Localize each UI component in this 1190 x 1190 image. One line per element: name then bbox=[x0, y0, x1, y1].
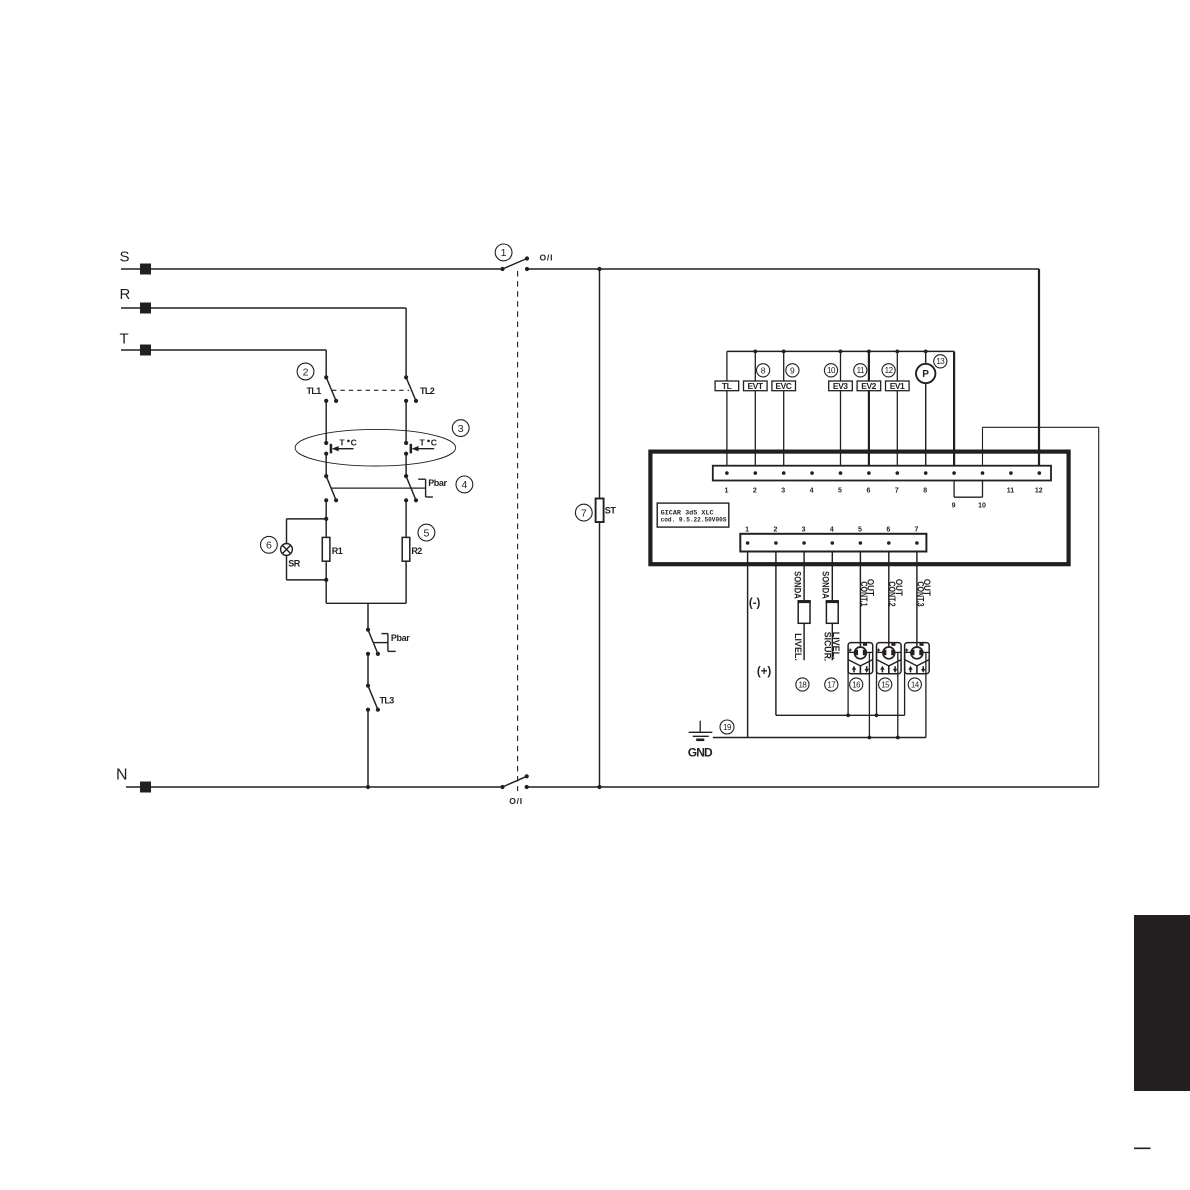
svg-text:LIVEL.: LIVEL. bbox=[793, 633, 804, 661]
circled 19 bbox=[720, 720, 734, 734]
circled 18 bbox=[796, 678, 809, 691]
ground symbol bbox=[689, 721, 713, 740]
svg-text:EVT: EVT bbox=[747, 381, 763, 391]
resistor R1 bbox=[322, 537, 330, 561]
svg-text:6: 6 bbox=[866, 488, 870, 495]
svg-text:3: 3 bbox=[458, 423, 464, 435]
svg-text:1: 1 bbox=[745, 526, 749, 533]
switch TL3 bbox=[366, 684, 380, 712]
probe LIVEL bbox=[798, 601, 811, 623]
wire Pbar left down bbox=[325, 500, 327, 537]
svg-text:4: 4 bbox=[461, 479, 467, 491]
main switch O/I top bbox=[500, 256, 529, 271]
node bus junction EV2 bbox=[867, 350, 871, 354]
wire terminal 1 to ground line bbox=[747, 552, 749, 738]
circled 11 bbox=[854, 364, 867, 377]
wire terminal 4 to probe bbox=[831, 552, 833, 601]
svg-text:5: 5 bbox=[423, 527, 429, 539]
terminal numbers lower strip bbox=[745, 526, 918, 533]
load label box EV2 bbox=[857, 381, 881, 391]
wire relay 16 right leg bbox=[868, 652, 870, 737]
svg-text:12: 12 bbox=[885, 366, 894, 375]
lamp SR bbox=[281, 544, 293, 556]
terminal square N bbox=[140, 782, 151, 793]
circled 12 bbox=[882, 364, 895, 377]
wire ground line bbox=[713, 737, 926, 739]
wire join to Pbar lower bbox=[367, 603, 369, 629]
node ground line relay 16 bbox=[868, 736, 872, 740]
node plus line relay 15 bbox=[875, 713, 879, 717]
svg-text:4: 4 bbox=[830, 526, 834, 533]
node bus junction EV3 bbox=[839, 350, 843, 354]
svg-text:3: 3 bbox=[781, 488, 785, 495]
bracket Pbar upper bbox=[418, 479, 433, 497]
svg-text:9: 9 bbox=[952, 503, 956, 510]
node bus junction EV1 bbox=[895, 350, 899, 354]
svg-text:8: 8 bbox=[923, 488, 927, 495]
wire bus to EV3 box bbox=[840, 351, 842, 381]
outer loop wire from terminal 10 bbox=[983, 427, 1099, 787]
svg-text:R1: R1 bbox=[332, 546, 343, 556]
svg-text:SONDA: SONDA bbox=[820, 571, 831, 599]
wire EVT to terminal bbox=[754, 391, 756, 466]
circled 14 bbox=[908, 678, 921, 691]
wire EV2 to terminal bbox=[868, 391, 870, 466]
node junction lamp branch bottom bbox=[324, 578, 328, 582]
circled 3 bbox=[452, 420, 469, 437]
svg-text:C: C bbox=[431, 438, 437, 448]
svg-text:10: 10 bbox=[827, 366, 836, 375]
svg-text:TL2: TL2 bbox=[420, 386, 435, 396]
circled 6 bbox=[261, 536, 278, 553]
wire TL1 to thermal contact bbox=[325, 401, 327, 443]
link line Pbar poles bbox=[331, 487, 425, 489]
svg-text:TL3: TL3 bbox=[380, 695, 395, 705]
wire terminal to relay 14 bbox=[916, 552, 918, 647]
switch Pbar right pole bbox=[404, 474, 418, 502]
terminal dots lower strip bbox=[746, 541, 919, 545]
wire TL3 to N bbox=[367, 710, 369, 787]
terminal square T bbox=[140, 345, 151, 356]
wire terminal to relay 15 bbox=[888, 552, 890, 647]
svg-text:R: R bbox=[120, 286, 131, 303]
node junction ST branch top bbox=[597, 267, 601, 271]
svg-text:8: 8 bbox=[761, 365, 766, 375]
svg-text:cod. 9.5.22.50V00S: cod. 9.5.22.50V00S bbox=[661, 516, 727, 523]
pump relay CONT.2 bbox=[877, 643, 902, 674]
svg-text:SICUR.: SICUR. bbox=[822, 632, 833, 662]
svg-text:7: 7 bbox=[581, 507, 587, 519]
node bus junction EVT bbox=[753, 350, 757, 354]
page marker black block bbox=[1134, 915, 1190, 1091]
wire bus to EV2 box bbox=[868, 351, 870, 381]
wire EVC to terminal bbox=[783, 391, 785, 466]
node ground line relay 15 bbox=[896, 736, 900, 740]
svg-text:EVC: EVC bbox=[775, 381, 791, 391]
wire P to terminal 8 bbox=[925, 383, 927, 466]
switch Pbar left pole bbox=[324, 474, 338, 502]
wire EV3 to terminal bbox=[840, 391, 842, 466]
svg-text:2: 2 bbox=[753, 488, 757, 495]
ellipse thermal group bbox=[295, 429, 456, 466]
svg-text:CONT.1: CONT.1 bbox=[859, 581, 870, 606]
svg-text:14: 14 bbox=[911, 680, 920, 689]
svg-text:3: 3 bbox=[802, 526, 806, 533]
circled 8 bbox=[757, 364, 770, 377]
terminal strip upper bbox=[713, 466, 1051, 481]
svg-text:P: P bbox=[922, 369, 929, 380]
load label box EVT bbox=[744, 381, 768, 391]
circled 15 bbox=[879, 678, 892, 691]
svg-text:6: 6 bbox=[886, 526, 890, 533]
wire S phase bbox=[121, 268, 503, 270]
svg-text:7: 7 bbox=[895, 488, 899, 495]
svg-text:CONT.3: CONT.3 bbox=[915, 581, 926, 606]
svg-text:11: 11 bbox=[1007, 488, 1015, 495]
wire T phase bbox=[121, 349, 326, 351]
svg-text:CONT.2: CONT.2 bbox=[887, 581, 898, 606]
svg-text:16: 16 bbox=[852, 680, 861, 689]
svg-text:ST: ST bbox=[605, 505, 617, 515]
wire probe LIVEL tail bbox=[803, 623, 805, 660]
svg-text:EV2: EV2 bbox=[861, 381, 876, 391]
svg-text:Pbar: Pbar bbox=[428, 478, 447, 488]
wire relay 15 right leg bbox=[897, 652, 899, 737]
node junction ST branch bottom bbox=[597, 785, 601, 789]
svg-text:5: 5 bbox=[838, 488, 842, 495]
node junction TL3 on N bbox=[366, 785, 370, 789]
svg-text:EV3: EV3 bbox=[833, 381, 848, 391]
wire bus to EVC box bbox=[783, 351, 785, 381]
load label box EV1 bbox=[886, 381, 910, 391]
bracket Pbar lower bbox=[373, 634, 396, 652]
wire bus to terminal 9 bbox=[953, 351, 955, 465]
svg-text:SONDA: SONDA bbox=[793, 571, 804, 599]
svg-text:1: 1 bbox=[724, 488, 728, 495]
wire resistor join bbox=[326, 602, 406, 604]
wire bus to EV1 box bbox=[896, 351, 898, 381]
wire bus to TL box bbox=[726, 351, 728, 381]
terminal numbers upper strip bbox=[724, 488, 1042, 510]
wire R1 bottom bbox=[325, 561, 327, 603]
svg-text:Pbar: Pbar bbox=[391, 633, 410, 643]
wire Pbar lower to TL3 bbox=[367, 654, 369, 686]
wire EV1 to terminal bbox=[896, 391, 898, 466]
terminal strip lower bbox=[740, 534, 926, 552]
circled 5 bbox=[418, 524, 435, 541]
wire relay 14 right leg bbox=[925, 652, 927, 737]
load label box TL bbox=[715, 381, 739, 391]
svg-text:9: 9 bbox=[790, 365, 795, 375]
wire thermal to Pbar left bbox=[325, 454, 327, 476]
switch TL2 bbox=[404, 375, 418, 403]
nameplate box bbox=[657, 503, 729, 527]
svg-text:T: T bbox=[420, 438, 426, 448]
circled 13 bbox=[934, 355, 947, 368]
wire plus line bbox=[776, 714, 905, 716]
wire relay 16 left leg bbox=[847, 652, 849, 715]
wire TL to terminal bbox=[726, 391, 728, 466]
dashed switch coupling line bbox=[517, 271, 519, 791]
svg-text:7: 7 bbox=[914, 526, 918, 533]
terminal square S bbox=[140, 264, 151, 275]
wire bus to P bbox=[925, 351, 927, 363]
svg-text:T: T bbox=[120, 331, 129, 348]
wire R phase bbox=[121, 307, 406, 309]
wire ST bottom bbox=[599, 522, 601, 787]
svg-text:S: S bbox=[120, 249, 130, 266]
circled 2 bbox=[297, 363, 314, 380]
svg-text:12: 12 bbox=[1035, 488, 1043, 495]
svg-text:R2: R2 bbox=[411, 546, 422, 556]
svg-text:6: 6 bbox=[266, 540, 272, 552]
svg-text:C: C bbox=[351, 438, 357, 448]
wire Pbar right down bbox=[405, 500, 407, 537]
pump relay CONT.3 bbox=[905, 643, 930, 674]
svg-text:11: 11 bbox=[857, 366, 865, 375]
circled 16 bbox=[850, 678, 863, 691]
circled 4 bbox=[456, 476, 473, 493]
main switch O/I bottom bbox=[500, 774, 528, 789]
svg-text:TL: TL bbox=[722, 381, 732, 391]
wire terminal 2 to plus line bbox=[775, 552, 777, 716]
svg-text:O/I: O/I bbox=[540, 253, 554, 263]
probe LIVEL SICUR bbox=[826, 601, 839, 623]
wire lamp branch top bbox=[287, 518, 327, 520]
svg-text:13: 13 bbox=[936, 357, 945, 366]
circled 10 bbox=[824, 364, 837, 377]
svg-text:N: N bbox=[116, 767, 128, 784]
svg-text:15: 15 bbox=[881, 680, 890, 689]
wire relay 14 left leg bbox=[904, 652, 906, 715]
load label box EV3 bbox=[829, 381, 853, 391]
circled 1 bbox=[495, 244, 512, 261]
pump relay CONT.1 bbox=[848, 643, 873, 674]
svg-text:1: 1 bbox=[501, 247, 507, 259]
wire lamp branch bottom bbox=[286, 555, 288, 580]
switch TL1 bbox=[324, 375, 338, 403]
svg-text:4: 4 bbox=[810, 488, 814, 495]
controller box GICAR bbox=[650, 452, 1068, 565]
wire N neutral bbox=[126, 786, 503, 788]
svg-text:O/I: O/I bbox=[509, 796, 523, 806]
circled 17 bbox=[825, 678, 838, 691]
node junction lamp branch top bbox=[324, 517, 328, 521]
svg-text:17: 17 bbox=[827, 680, 836, 689]
svg-text:TL1: TL1 bbox=[307, 386, 322, 396]
thermal contact T C right bbox=[404, 441, 434, 456]
resistor R2 bbox=[402, 537, 410, 561]
wire probe LIVEL SICUR tail bbox=[831, 623, 833, 660]
terminal square R bbox=[140, 303, 151, 314]
node plus line relay 16 bbox=[846, 713, 850, 717]
svg-text:18: 18 bbox=[798, 680, 807, 689]
svg-text:SR: SR bbox=[288, 559, 301, 569]
node bus junction P bbox=[924, 350, 928, 354]
wire right drop to terminal 12 bbox=[1038, 269, 1040, 466]
thermal contact T C left bbox=[324, 441, 353, 456]
wire bus to EVT box bbox=[754, 351, 756, 381]
switch Pbar lower bbox=[366, 628, 380, 656]
dashed link TL1-TL2 bbox=[332, 389, 409, 391]
wire TL2 to thermal contact bbox=[405, 401, 407, 443]
circled 7 bbox=[575, 504, 592, 521]
load label box EVC bbox=[772, 381, 796, 391]
wire top run to right bbox=[527, 268, 1039, 270]
circled 9 bbox=[786, 364, 799, 377]
svg-text:(+): (+) bbox=[757, 666, 772, 678]
wire N run to right bbox=[527, 786, 1099, 788]
svg-text:2: 2 bbox=[773, 526, 777, 533]
wire R2 bottom bbox=[405, 561, 407, 603]
svg-text:(-): (-) bbox=[749, 598, 761, 610]
terminal dots upper strip bbox=[725, 471, 1041, 475]
svg-text:2: 2 bbox=[303, 366, 309, 378]
node bus junction EVC bbox=[782, 350, 786, 354]
svg-text:10: 10 bbox=[978, 503, 986, 510]
wire terminal 3 to probe bbox=[803, 552, 805, 601]
pressure gauge P bbox=[916, 364, 935, 383]
wire R down to TL2 bbox=[405, 308, 407, 377]
thermostat ST bbox=[596, 499, 604, 523]
page marker dash bbox=[1134, 1147, 1151, 1149]
svg-text:19: 19 bbox=[723, 723, 732, 732]
jumper terminals 9-10 bbox=[954, 481, 982, 498]
wire ST top bbox=[599, 269, 601, 499]
svg-text:T: T bbox=[339, 438, 345, 448]
wire thermal to Pbar right bbox=[405, 454, 407, 476]
wire relay 15 left leg bbox=[876, 652, 878, 715]
svg-text:5: 5 bbox=[858, 526, 862, 533]
svg-text:EV1: EV1 bbox=[890, 381, 905, 391]
wire terminal to relay 16 bbox=[859, 552, 861, 647]
wire T down to TL1 bbox=[325, 350, 327, 377]
bus wire loads common bbox=[727, 350, 954, 352]
svg-text:GND: GND bbox=[688, 746, 713, 760]
